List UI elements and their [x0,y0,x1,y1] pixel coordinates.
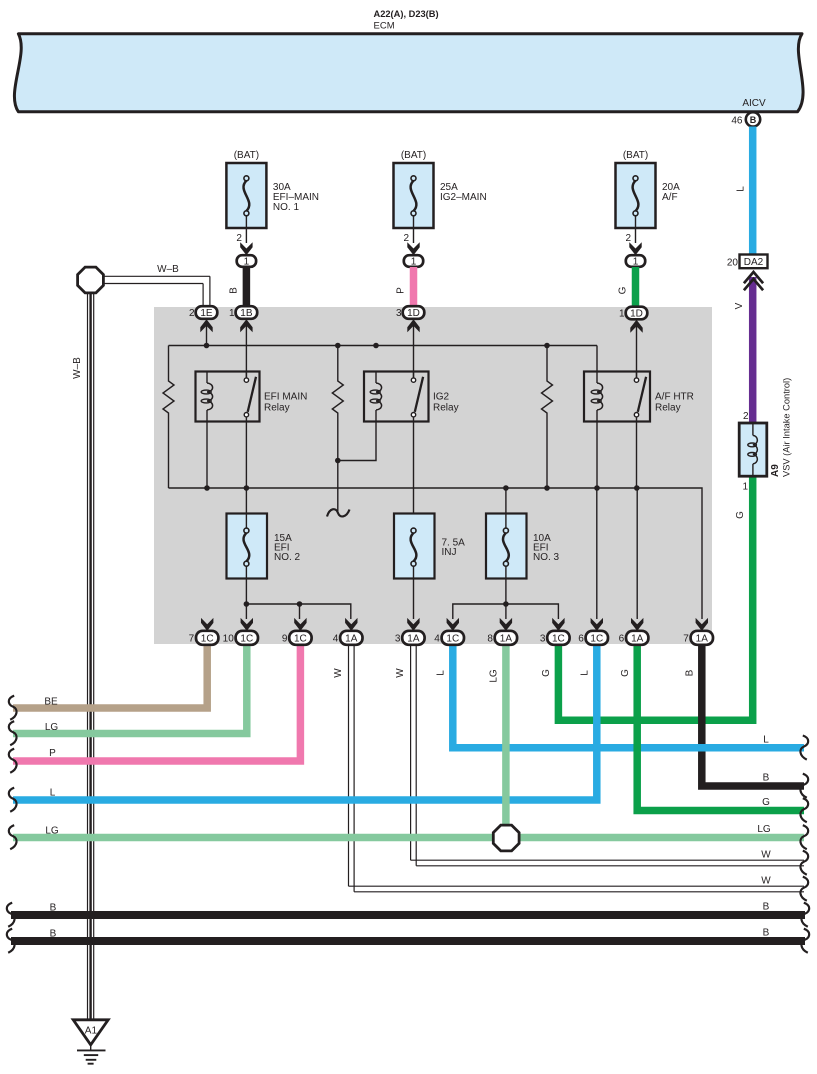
wire W-B vertical to ground [87,293,89,1019]
svg-text:3: 3 [395,634,401,645]
junction dot IG2 coil [335,458,341,464]
fuse 25A symbol [411,176,416,181]
wire A/F contact to bus [636,422,638,489]
fuse 15A EFI NO.2 box [227,514,268,579]
svg-text:1D: 1D [630,309,643,320]
svg-text:Relay: Relay [433,403,459,414]
svg-text:VSV (Air Intake Control): VSV (Air Intake Control) [782,378,792,477]
svg-text:B: B [685,669,696,676]
wire A/F coil to bus [596,422,598,489]
wire 1E to bus [206,325,208,346]
svg-text:6: 6 [578,634,584,645]
squiggle W-right2 [800,877,808,901]
wire LG from 10(1C) [13,644,247,734]
svg-text:G: G [735,511,746,519]
svg-text:8: 8 [487,634,493,645]
svg-text:EFI MAIN: EFI MAIN [264,392,307,403]
svg-text:L: L [50,788,56,799]
VSV A9 box [739,423,767,476]
svg-text:B: B [229,287,240,294]
svg-text:A/F: A/F [662,192,678,203]
wire P [13,644,300,762]
wire W from 3(1A) [410,644,412,861]
svg-text:A/F HTR: A/F HTR [655,392,694,403]
fuse 20A box [616,163,656,228]
wire 1(1D) to A/F contact [636,326,638,378]
fuse 10A EFI NO.3 box [486,514,527,579]
wire BE [13,644,207,709]
relay box EFI MAIN [196,372,260,422]
squiggle LG-right [800,825,808,849]
svg-text:ECM: ECM [374,21,395,32]
svg-text:NO. 2: NO. 2 [274,552,301,563]
wire B fuse 30A to block [243,267,251,307]
wire IG2 contact to fuse 7.5A [413,422,415,529]
resistor R1 (left) [163,346,174,489]
wire bus to A/F coil [596,346,598,372]
relay box IG2 [364,372,429,422]
svg-text:NO. 1: NO. 1 [273,202,300,213]
svg-text:B: B [763,928,770,939]
relay box A/F HTR [584,372,650,422]
svg-text:1A: 1A [345,633,358,644]
svg-text:1A: 1A [631,633,644,644]
wire L (AICV to DA2) [749,127,757,255]
svg-text:A22(A), D23(B): A22(A), D23(B) [374,9,439,19]
svg-text:W: W [395,668,406,678]
svg-text:3: 3 [396,308,402,319]
svg-text:B: B [50,929,57,940]
wire LG from 8(1A) [502,644,510,838]
EFI MAIN relay contact [245,372,247,378]
svg-text:V: V [734,302,745,309]
squiggle G-right [800,798,808,822]
fuse 15A symbol [245,488,247,528]
svg-text:7: 7 [189,634,195,645]
EFI MAIN relay coil [206,372,208,384]
squiggle B-right3 [801,929,809,953]
svg-text:L: L [580,670,591,676]
svg-text:A1: A1 [85,1026,98,1037]
svg-text:1: 1 [633,257,639,268]
arrow into oval 25A [407,242,419,255]
squiggle LG2-left [9,825,17,849]
svg-text:1C: 1C [446,633,459,644]
svg-text:20: 20 [727,258,739,269]
squiggle B-right1 [800,774,808,798]
svg-text:AICV: AICV [742,98,766,109]
arrow into oval 30A [240,242,252,255]
squiggle LG1 [9,721,17,745]
wire bus to 6(1C) [596,488,598,619]
svg-text:1: 1 [619,309,625,320]
squiggle L1 [9,788,17,812]
svg-text:INJ: INJ [442,547,457,558]
oval 1 20A [626,255,645,267]
wire EFI contact to bus [245,422,247,489]
svg-text:1: 1 [742,482,748,493]
svg-text:10: 10 [223,634,235,645]
wire W-B (white/black) from splice to connector 1E [104,275,210,277]
svg-text:7: 7 [683,634,689,645]
svg-text:B: B [763,773,770,784]
wire 3(1D) to IG2 contact [413,325,415,378]
wire G from 6(1A) [637,644,804,811]
svg-text:W–B: W–B [72,357,83,379]
squiggle L-right [800,736,808,760]
wire LG horizontal [13,834,804,842]
wire W from 4(1A) [348,644,350,887]
A/F HTR relay contact [636,372,638,378]
squiggle BE [9,696,17,720]
svg-text:1D: 1D [407,308,420,319]
junction block (gray) [154,307,712,644]
svg-text:1A: 1A [696,633,709,644]
IG2 relay coil [375,372,377,384]
svg-text:4: 4 [333,634,339,645]
svg-text:(BAT): (BAT) [401,150,426,161]
fuse 7.5A symbol [411,528,416,533]
svg-text:1C: 1C [590,633,603,644]
fuse 30A symbol [244,176,249,181]
svg-text:LG: LG [757,824,771,835]
svg-text:W: W [761,876,771,887]
VSV coil [752,423,754,435]
fuse 7.5A INJ box [394,514,435,579]
wire L from 6(1C) [13,644,597,801]
wire B lower 1 [11,911,805,919]
wire G from 3(1C) to VSV [558,476,752,720]
svg-text:B: B [50,903,57,914]
wire V (DA2 to VSV) [749,277,757,423]
fuse 10A symbol [505,488,507,528]
wire 15A output split [246,604,350,619]
svg-text:1C: 1C [294,633,307,644]
lower bus wire [169,488,703,619]
svg-text:46: 46 [731,116,743,127]
svg-text:1A: 1A [500,633,513,644]
svg-text:IG2–MAIN: IG2–MAIN [440,192,487,203]
top bus wire [169,345,598,347]
squiggle W-right1 [800,851,808,875]
A/F HTR relay coil [596,372,598,384]
svg-text:9: 9 [282,634,288,645]
svg-text:1C: 1C [552,633,565,644]
wire IG2 coil to R2 [338,422,376,461]
wire P fuse 25A to block [410,267,418,307]
squiggle P [9,749,17,773]
svg-text:G: G [541,669,552,677]
svg-text:2: 2 [403,233,409,244]
svg-text:BE: BE [44,697,58,708]
junction dots lower bus [204,485,210,491]
svg-text:B: B [750,115,757,125]
squiggle B2-left [7,929,15,953]
fuse 30A box [226,163,266,228]
svg-text:2: 2 [625,233,631,244]
resistor R2 (middle) [332,346,343,512]
svg-text:4: 4 [434,634,440,645]
IG2 relay contact [413,372,415,378]
svg-text:LG: LG [45,722,59,733]
svg-text:W: W [333,668,344,678]
junction dots top bus [204,343,210,349]
svg-text:P: P [396,287,407,294]
svg-text:1B: 1B [240,308,253,319]
wire B from 7(1A) [702,644,804,787]
wire G fuse 20A to block [632,267,640,307]
svg-text:2: 2 [236,233,242,244]
squiggle B1-left [7,903,15,927]
wire 10A output split [453,604,559,619]
svg-text:1C: 1C [201,633,214,644]
svg-text:(BAT): (BAT) [234,150,259,161]
svg-text:L: L [436,670,447,676]
svg-text:LG: LG [45,826,59,837]
svg-text:3: 3 [540,634,546,645]
squiggle B-right2 [801,903,809,927]
svg-text:2: 2 [189,308,195,319]
wire B lower 2 [11,937,805,945]
wire L from 4(1C) [453,644,804,748]
ECM block (A22(A), D23(B)) [14,34,803,112]
svg-text:NO. 3: NO. 3 [533,552,560,563]
svg-text:1: 1 [229,308,235,319]
svg-text:LG: LG [489,669,500,683]
wire 1B to EFI MAIN contact [245,325,247,378]
svg-text:1: 1 [244,257,250,268]
fuse 20A symbol [633,176,638,181]
svg-text:P: P [49,748,56,759]
splice octagon (LG) [493,825,519,851]
ground A1 [73,1020,108,1045]
svg-text:Relay: Relay [655,403,681,414]
svg-text:L: L [736,186,747,192]
svg-text:G: G [620,669,631,677]
wire bus to 6(1A) [636,488,638,619]
tilde end of R2 line [327,509,350,516]
shield chevrons DA2 [744,272,763,283]
svg-text:Relay: Relay [264,403,290,414]
svg-text:G: G [762,797,770,808]
wire EFI coil to bus [206,422,208,489]
resistor R3 (right) [542,346,553,489]
fuse 25A box [394,163,434,228]
splice octagon (W-B) [78,267,104,293]
svg-text:2: 2 [743,411,749,422]
svg-text:W–B: W–B [157,264,179,275]
svg-text:IG2: IG2 [433,392,450,403]
svg-text:L: L [763,735,769,746]
svg-text:DA2: DA2 [744,257,764,268]
svg-text:1E: 1E [200,308,213,319]
svg-text:(BAT): (BAT) [623,150,648,161]
svg-text:1A: 1A [407,633,420,644]
oval 1 25A [404,255,423,267]
svg-text:A9: A9 [770,464,781,477]
oval 1 30A [237,255,256,267]
svg-text:B: B [763,902,770,913]
svg-text:1C: 1C [240,633,253,644]
svg-text:W: W [761,850,771,861]
svg-text:G: G [618,286,629,294]
svg-text:6: 6 [619,634,625,645]
arrow into oval 20A [629,242,641,255]
svg-text:1: 1 [411,257,417,268]
